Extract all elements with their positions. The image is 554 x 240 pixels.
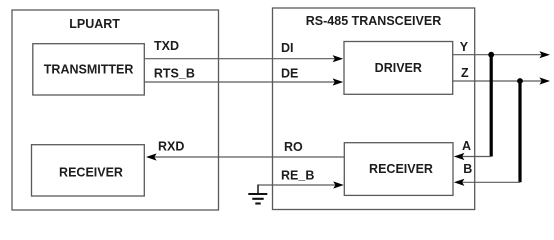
svg-text:TXD: TXD xyxy=(154,39,179,53)
svg-text:Z: Z xyxy=(461,66,469,80)
svg-text:DRIVER: DRIVER xyxy=(375,61,422,75)
wire Y output xyxy=(453,54,548,56)
svg-text:RS-485 TRANSCEIVER: RS-485 TRANSCEIVER xyxy=(306,14,441,28)
bus wire Y to A xyxy=(490,55,493,157)
ground stub wire xyxy=(257,185,259,195)
wire TXD to DI xyxy=(144,58,341,60)
arrow into driver DI xyxy=(333,55,344,62)
ground symbol xyxy=(248,194,267,204)
bus wire Z to B xyxy=(518,81,521,182)
arrow into receiver A xyxy=(454,153,465,160)
wire RTS_B to DE xyxy=(144,81,341,83)
arrowhead Y xyxy=(539,51,550,58)
svg-text:Y: Y xyxy=(460,40,469,54)
svg-text:TRANSMITTER: TRANSMITTER xyxy=(44,63,134,77)
arrowhead Z xyxy=(539,77,550,84)
transmitter box xyxy=(33,44,145,95)
wire RO to RXD xyxy=(148,156,344,158)
wire A into receiver xyxy=(456,156,491,158)
junction dot Z bus xyxy=(517,78,523,84)
svg-text:RTS_B: RTS_B xyxy=(154,66,195,80)
driver box xyxy=(344,42,453,95)
svg-text:A: A xyxy=(462,139,471,153)
arrow into LPUART receiver RXD xyxy=(146,153,157,160)
svg-text:LPUART: LPUART xyxy=(69,17,120,31)
receiver box (LPUART) xyxy=(32,145,145,196)
svg-text:RE_B: RE_B xyxy=(281,169,314,183)
junction dot Y bus xyxy=(488,52,494,58)
arrow into receiver RE_B xyxy=(333,181,344,188)
arrow into driver DE xyxy=(333,78,344,85)
svg-text:RECEIVER: RECEIVER xyxy=(369,162,433,176)
wire Z output xyxy=(453,80,548,82)
receiver box (transceiver) xyxy=(344,143,453,196)
svg-text:RXD: RXD xyxy=(158,140,184,154)
svg-text:DE: DE xyxy=(281,66,298,80)
wire B into receiver xyxy=(456,181,520,183)
arrow into receiver B xyxy=(454,179,465,186)
svg-text:DI: DI xyxy=(281,41,294,55)
RS-485 transceiver block outline xyxy=(273,8,475,210)
svg-text:RECEIVER: RECEIVER xyxy=(59,165,123,179)
wire RE_B xyxy=(258,184,341,186)
LPUART block outline xyxy=(12,10,219,210)
svg-text:B: B xyxy=(463,162,472,176)
svg-text:RO: RO xyxy=(284,140,303,154)
